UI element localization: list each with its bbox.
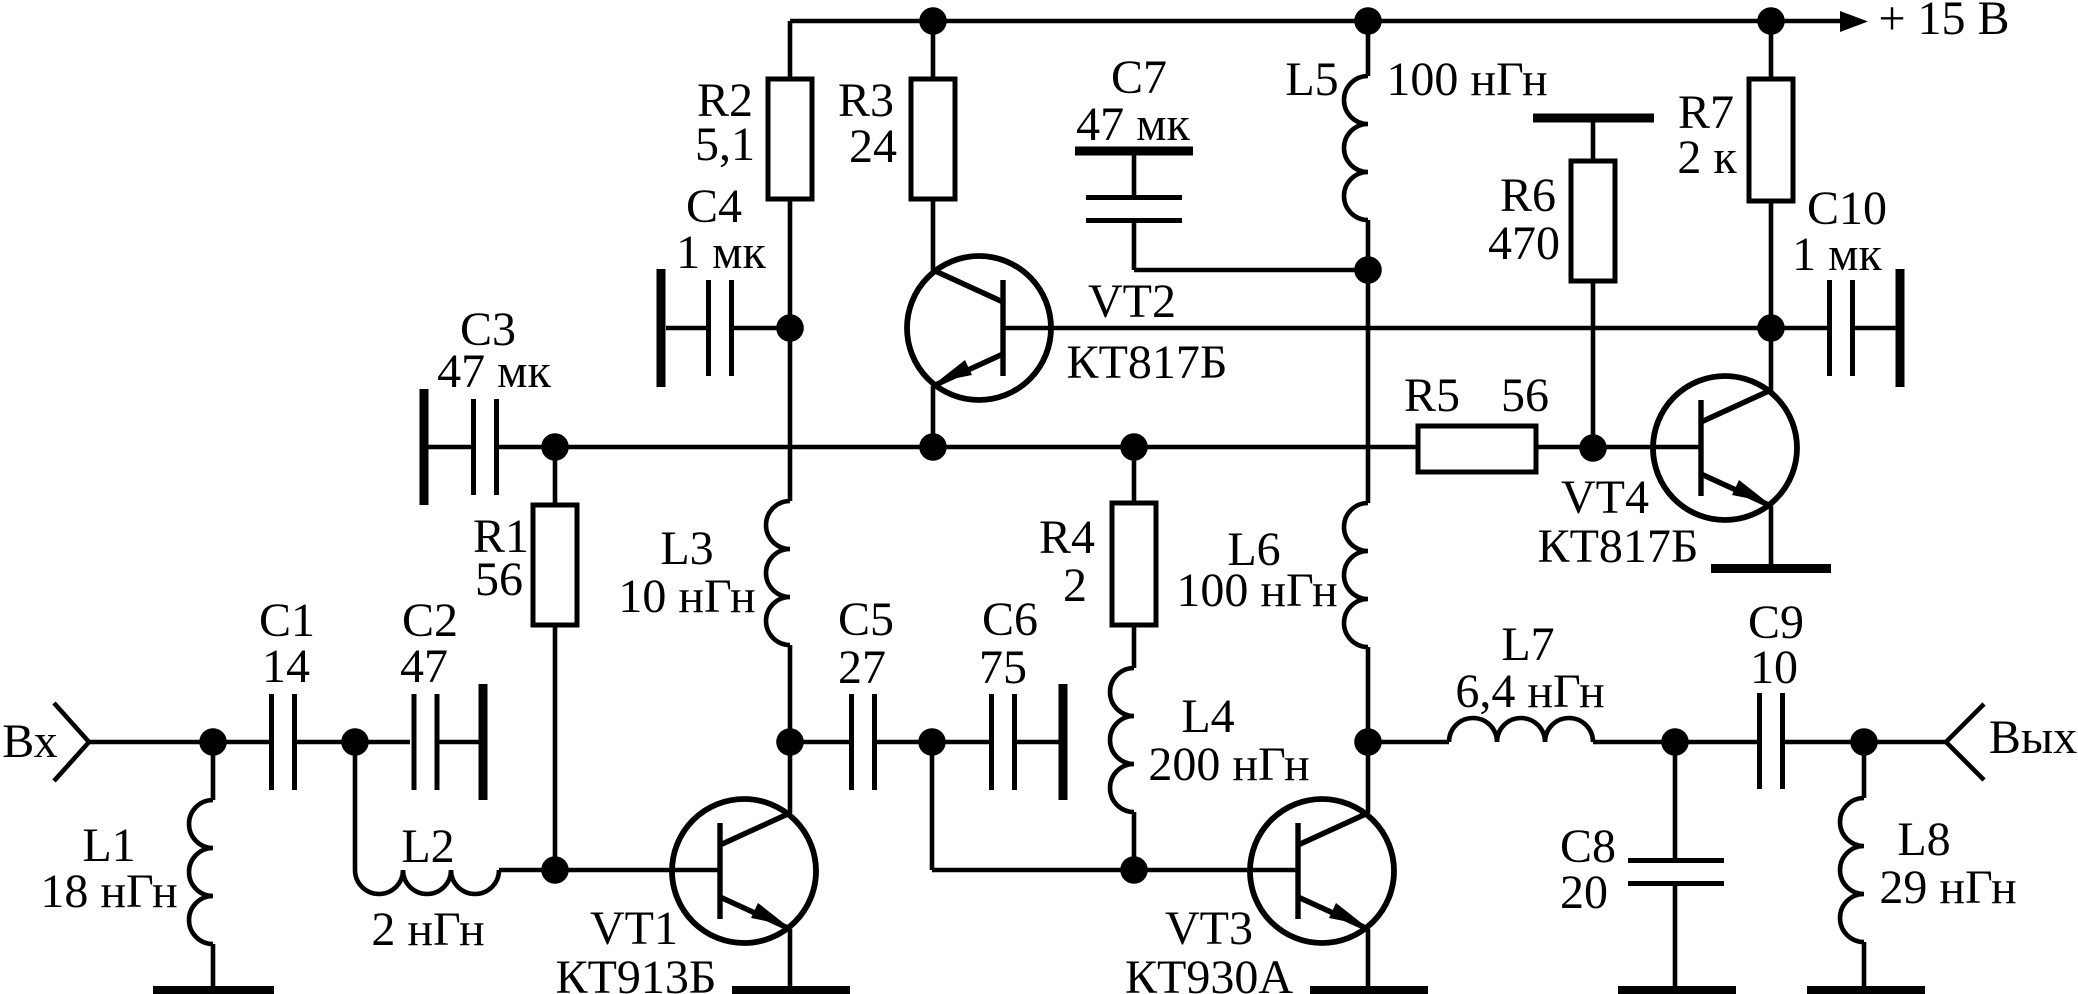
svg-text:56: 56: [475, 553, 523, 606]
node rail/R7: [1757, 7, 1785, 35]
inductor L1: [189, 742, 213, 986]
node L3/VT1 collector: [776, 728, 804, 756]
label L6: [1176, 523, 1337, 617]
ground under L8: [1807, 986, 1925, 994]
svg-text:R4: R4: [1039, 511, 1095, 564]
wire input: [89, 740, 269, 745]
svg-text:C6: C6: [982, 593, 1038, 646]
label C2: [400, 594, 458, 693]
wire R2 to L3: [788, 328, 793, 501]
wire L7 to C9: [1593, 740, 1673, 745]
label C1: [259, 594, 315, 693]
wire L5 to L6: [1366, 270, 1371, 503]
label R3: [838, 74, 897, 173]
capacitor C9: [1675, 693, 1864, 789]
capacitor C4: [661, 269, 790, 387]
label C10: [1792, 182, 1887, 281]
node R2/C4: [776, 314, 804, 342]
node L7/C8: [1661, 728, 1689, 756]
label C6: [979, 593, 1038, 694]
svg-text:VT3: VT3: [1165, 902, 1253, 955]
resistor R6: [1571, 122, 1615, 447]
svg-text:Вх: Вх: [2, 715, 57, 768]
transistor VT4: [1653, 328, 1797, 564]
label L4: [1148, 690, 1309, 791]
svg-text:14: 14: [262, 640, 310, 693]
svg-text:47 мк: 47 мк: [1076, 98, 1190, 151]
capacitor C8: [1628, 742, 1724, 986]
node R1/L2/VT1 base: [541, 856, 569, 884]
wire VT3 collector to L7: [1368, 740, 1449, 745]
resistor R2: [768, 21, 812, 328]
node L5/C7: [1354, 256, 1382, 284]
svg-text:1 мк: 1 мк: [676, 226, 766, 279]
node R4/bias: [1120, 433, 1148, 461]
capacitor C6: [932, 684, 1063, 800]
svg-text:2 к: 2 к: [1677, 131, 1737, 184]
inductor L6: [1344, 503, 1368, 742]
svg-text:R5: R5: [1404, 369, 1460, 422]
wire VT2 base line: [1003, 326, 1829, 331]
resistor R3: [911, 21, 955, 271]
label C3: [437, 303, 551, 398]
svg-text:470: 470: [1488, 217, 1560, 270]
svg-text:27: 27: [838, 641, 886, 694]
inductor L7: [1449, 718, 1593, 742]
svg-text:100 нГн: 100 нГн: [1176, 564, 1337, 617]
label VT2: [1067, 275, 1228, 389]
capacitor C1: [272, 694, 411, 790]
svg-text:C5: C5: [838, 593, 894, 646]
inductor L3: [766, 501, 790, 742]
svg-text:R6: R6: [1500, 169, 1556, 222]
label R2: [695, 74, 755, 171]
label R1: [473, 510, 529, 606]
wire output: [1864, 740, 1946, 745]
label C8: [1560, 820, 1616, 919]
wire C5/C6 node down: [930, 742, 935, 870]
inductor L4: [1110, 668, 1134, 870]
label C5: [838, 593, 894, 694]
label C4: [676, 180, 766, 279]
capacitor C2: [414, 684, 483, 800]
wire R5 to VT4 base: [1536, 445, 1699, 450]
svg-text:1 мк: 1 мк: [1792, 228, 1882, 281]
inductor L8: [1840, 742, 1864, 986]
svg-text:75: 75: [979, 641, 1027, 694]
svg-text:56: 56: [1501, 369, 1549, 422]
label R4: [1039, 511, 1095, 612]
node C5/C6: [918, 728, 946, 756]
wire bias line: [499, 445, 1418, 450]
svg-text:10: 10: [1750, 641, 1798, 694]
capacitor C3: [424, 389, 497, 505]
wire to VT3 base: [932, 868, 1296, 873]
svg-text:L4: L4: [1181, 690, 1234, 743]
+15V arrow: [1840, 11, 1868, 32]
label R6: [1488, 169, 1560, 270]
svg-text:КТ817Б: КТ817Б: [1538, 520, 1699, 573]
svg-text:18 нГн: 18 нГн: [40, 865, 177, 918]
node C3/R1 bias: [541, 433, 569, 461]
label VT1: [556, 902, 717, 994]
svg-text:L2: L2: [401, 820, 454, 873]
resistor R1: [533, 447, 577, 870]
transistor VT2: [907, 256, 1051, 400]
inductor L2: [355, 742, 499, 894]
svg-text:КТ817Б: КТ817Б: [1067, 336, 1228, 389]
svg-text:10 нГн: 10 нГн: [618, 570, 755, 623]
svg-text:C7: C7: [1111, 51, 1167, 104]
label VT3: [1125, 902, 1293, 994]
transistor VT3: [1250, 742, 1394, 986]
svg-text:2 нГн: 2 нГн: [371, 903, 484, 956]
svg-text:L3: L3: [660, 522, 713, 575]
svg-text:КТ913Б: КТ913Б: [556, 951, 717, 994]
svg-text:VT2: VT2: [1088, 275, 1176, 328]
label C9: [1748, 596, 1804, 694]
ground under L1: [153, 986, 274, 994]
label L3: [618, 522, 755, 623]
label L1: [40, 819, 177, 918]
svg-text:200 нГн: 200 нГн: [1148, 738, 1309, 791]
ground under C8: [1618, 986, 1736, 994]
svg-text:+ 15 В: + 15 В: [1878, 0, 2009, 45]
label R7: [1677, 86, 1737, 184]
capacitor C7: [1075, 151, 1368, 270]
resistor R7: [1749, 21, 1793, 328]
svg-text:VT4: VT4: [1561, 471, 1649, 524]
capacitor C5: [790, 694, 931, 790]
ground under VT1: [732, 986, 850, 994]
svg-text:47: 47: [400, 640, 448, 693]
svg-text:24: 24: [849, 120, 897, 173]
label L7: [1455, 618, 1604, 718]
svg-text:20: 20: [1560, 866, 1608, 919]
wire VT2 emitter: [931, 386, 936, 447]
svg-text:47 мк: 47 мк: [437, 345, 551, 398]
node rail/L5: [1354, 7, 1382, 35]
node R6/VT4 base: [1579, 434, 1607, 462]
resistor R5: [1418, 426, 1536, 472]
wire L2 to VT1 base: [499, 868, 718, 873]
svg-text:VT1: VT1: [590, 902, 678, 955]
capacitor C10: [1830, 269, 1901, 387]
svg-text:2: 2: [1063, 559, 1087, 612]
label VT4: [1538, 471, 1699, 573]
node input/L1: [199, 728, 227, 756]
svg-text:КТ930А: КТ930А: [1125, 951, 1293, 994]
svg-text:6,4 нГн: 6,4 нГн: [1455, 665, 1604, 718]
svg-text:L7: L7: [1501, 618, 1554, 671]
svg-text:100 нГн: 100 нГн: [1386, 53, 1547, 106]
resistor R4: [1112, 447, 1156, 668]
ground above R6: [1533, 114, 1654, 123]
svg-text:L8: L8: [1897, 813, 1950, 866]
inductor L5: [1344, 21, 1368, 270]
label R5: [1404, 369, 1549, 422]
label L2: [371, 820, 484, 956]
ground under VT4: [1711, 564, 1831, 573]
label C7: [1076, 51, 1190, 151]
node C1/C2/L2: [341, 728, 369, 756]
node L4/VT3 base: [1120, 856, 1148, 884]
transistor VT1: [672, 742, 816, 986]
node L6/VT3 collector: [1354, 728, 1382, 756]
node VT2 emitter/bias: [919, 433, 947, 461]
svg-text:Вых: Вых: [1989, 711, 2077, 764]
svg-text:5,1: 5,1: [695, 118, 755, 171]
node rail/R3: [919, 7, 947, 35]
input connector Вх: [54, 703, 89, 781]
node R7/C10/VT4 collector: [1757, 314, 1785, 342]
svg-text:29 нГн: 29 нГн: [1879, 861, 2016, 914]
wire +15V rail: [790, 19, 1842, 24]
node C9/L8: [1850, 728, 1878, 756]
label L8: [1879, 813, 2016, 914]
output connector Вых: [1946, 704, 1984, 780]
ground under VT3: [1310, 986, 1428, 994]
svg-text:L5: L5: [1285, 53, 1338, 106]
